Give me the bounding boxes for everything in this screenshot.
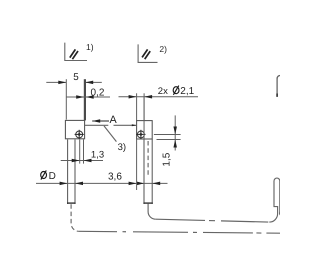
left body [65,120,84,139]
dimension 1,3 [61,149,104,162]
svg-text:1,3: 1,3 [91,149,104,160]
svg-text:5: 5 [73,72,79,83]
extension line left [65,79,67,119]
diam D arrows [60,182,68,186]
dimension 5 [46,72,102,121]
svg-text:0,2: 0,2 [91,87,105,98]
corner up at right [269,181,277,222]
dimension 2x diam 2,1 [119,86,199,121]
dimension 0,2 [66,87,110,98]
short extension lines for 1,3 [79,139,81,163]
top right clipped element [277,76,280,97]
extension line right (double, dark) [84,79,86,120]
left pin center line going down and right [71,204,280,233]
left pin [67,139,84,204]
svg-text:A: A [110,114,118,126]
3,6 extension line [136,139,138,190]
screw cross symbol [76,131,83,138]
svg-text:2,1: 2,1 [180,86,194,97]
svg-text:1): 1) [86,42,94,52]
svg-text:2x: 2x [158,86,168,97]
bridge line between bodies with note 3) [85,124,136,153]
center dashes inside pin [147,141,149,176]
dome cap [274,178,280,181]
3,6 arrow [129,182,137,186]
dimension 1,5 [154,115,181,166]
svg-text:3,6: 3,6 [108,172,122,183]
svg-text:1,5: 1,5 [162,152,173,166]
svg-text:3): 3) [118,142,126,153]
right body [136,97,152,139]
right pin arrows [137,182,144,186]
diam D text [41,172,47,179]
right pin lead bending right [148,178,281,222]
right pin [143,139,152,204]
hidden edge through body (pin left edge extended) [143,97,145,139]
svg-text:2): 2) [159,44,167,54]
long center line to the right, slightly sloped [79,230,117,232]
roughness symbol 1) [65,42,94,61]
svg-text:D: D [49,171,56,182]
roughness symbol 2) [138,44,167,62]
dimension line diam D / 3,6 / pin diam (one long line) [36,170,168,185]
view arrow A [92,114,117,126]
